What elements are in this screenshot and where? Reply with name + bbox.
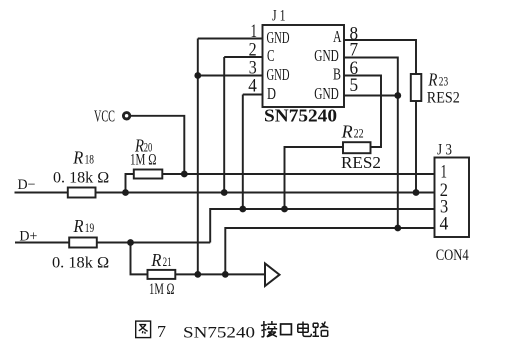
wire: pin4 (D) vertical down to D+ upper line: [242, 95, 244, 210]
wire: IC pin6 (B) down to R22 right end: [344, 76, 381, 148]
svg-text:R: R: [72, 148, 83, 168]
wire: IC pin1 to left vertical: [198, 38, 263, 40]
wire: IC pin4 to left vertical: [243, 94, 263, 96]
svg-text:22: 22: [354, 125, 364, 140]
svg-text:RES2: RES2: [341, 153, 381, 172]
svg-text:SN75240: SN75240: [264, 106, 337, 126]
resistor R22 body: [343, 142, 371, 153]
svg-text:B: B: [333, 65, 341, 84]
IC U1 SN75240 body: [263, 25, 345, 107]
caption: chinese char 接: [261, 321, 277, 337]
wire: IC pin3 to left vertical: [198, 75, 263, 77]
svg-text:J 1: J 1: [272, 8, 286, 25]
junction dot GND vertical/pin3: [194, 72, 201, 79]
resistor R18 body: [68, 188, 96, 198]
junction dot R21 line / J3 pin4 branch: [222, 271, 229, 278]
wire: IC pin2 to left vertical: [224, 56, 262, 58]
connector J3 body: [435, 158, 470, 238]
wire: GND vertical from pin1/pin3 down to R21 output line: [197, 39, 199, 275]
svg-text:SN75240: SN75240: [183, 324, 255, 341]
svg-text:J 3: J 3: [437, 141, 452, 158]
svg-text:R: R: [150, 250, 161, 270]
svg-text:GND: GND: [314, 46, 339, 65]
svg-text:4: 4: [440, 214, 449, 235]
svg-text:VCC: VCC: [94, 106, 115, 125]
caption: chinese char 口: [281, 324, 292, 335]
svg-text:4: 4: [248, 76, 257, 97]
wire: GND branch up to J3 pin4 line: [225, 228, 434, 274]
wire: IC pin8 (A) to right corner: [344, 40, 416, 74]
svg-text:1M Ω: 1M Ω: [130, 151, 157, 168]
svg-text:R: R: [341, 121, 353, 141]
svg-text:D+: D+: [19, 228, 37, 244]
junction dot pin3 line / pin4 D: [239, 206, 246, 213]
svg-text:0. 18k Ω: 0. 18k Ω: [53, 169, 109, 186]
junction dot D-/pin2: [221, 189, 228, 196]
svg-text:R: R: [428, 70, 438, 90]
wire: R22 left end down to J3 pin3 line: [285, 147, 344, 209]
svg-text:C: C: [267, 46, 275, 65]
wire: VCC/R20 line to J3 pin1: [162, 173, 434, 175]
wire: R23 bottom down to D- / J3 pin2 line: [415, 101, 417, 193]
svg-text:1M Ω: 1M Ω: [149, 281, 175, 298]
svg-text:GND: GND: [267, 28, 290, 47]
caption: chinese char 图: [136, 321, 329, 341]
svg-text:18: 18: [85, 152, 94, 167]
wire: D- horizontal line from input to J3 pin2: [15, 192, 435, 194]
svg-text:RES2: RES2: [427, 89, 460, 106]
junction dot R21 line / GND vertical: [194, 271, 201, 278]
svg-text:GND: GND: [267, 65, 290, 84]
wire: D+ horizontal input line: [15, 242, 210, 244]
svg-text:A: A: [333, 27, 342, 46]
svg-text:GND: GND: [314, 84, 339, 103]
wire: R21 left branch from D+ line down: [131, 243, 148, 275]
wire: D+ corner up to J3 pin3 line: [210, 209, 434, 243]
resistor R23 body: [411, 74, 422, 101]
junction dot pin5/pin7: [394, 92, 401, 99]
wire: IC pin5 (GND) to pin7 vertical: [344, 95, 398, 97]
svg-text:19: 19: [85, 220, 94, 235]
svg-text:21: 21: [163, 254, 172, 269]
svg-text:D: D: [267, 84, 276, 103]
op-amp/buffer triangle symbol: [265, 263, 280, 286]
caption: chinese char 路: [313, 322, 329, 337]
VCC terminal circle: [123, 113, 129, 119]
junction dot D+/R21: [127, 239, 134, 246]
wire: R21 output line to triangle: [175, 273, 265, 275]
svg-text:0. 18k Ω: 0. 18k Ω: [52, 255, 109, 272]
junction dot D-/R23: [413, 189, 420, 196]
wire: VCC lead to vertical down: [130, 116, 185, 174]
wire: IC pin7 (GND) right vertical down to J3 pin4 line: [344, 58, 398, 229]
junction dot VCC/R20 line: [181, 171, 188, 178]
junction dot J3 pin4 line: [394, 225, 401, 232]
svg-text:CON4: CON4: [436, 247, 469, 264]
resistor R19 body: [69, 238, 97, 248]
resistor R20 body: [134, 170, 163, 179]
resistor R21 body: [148, 270, 176, 279]
wire: R20 left branch from D- line up: [126, 174, 134, 193]
wire: pin2 (C) vertical down to D- line: [223, 57, 225, 193]
svg-text:D−: D−: [18, 177, 36, 193]
caption: chinese char 电: [298, 322, 312, 337]
svg-text:23: 23: [439, 74, 448, 89]
junction dot pin3 line / R22: [281, 206, 288, 213]
svg-text:5: 5: [350, 75, 359, 96]
svg-text:7: 7: [157, 322, 167, 341]
junction dot D-/R20: [122, 189, 129, 196]
svg-text:R: R: [73, 216, 84, 236]
